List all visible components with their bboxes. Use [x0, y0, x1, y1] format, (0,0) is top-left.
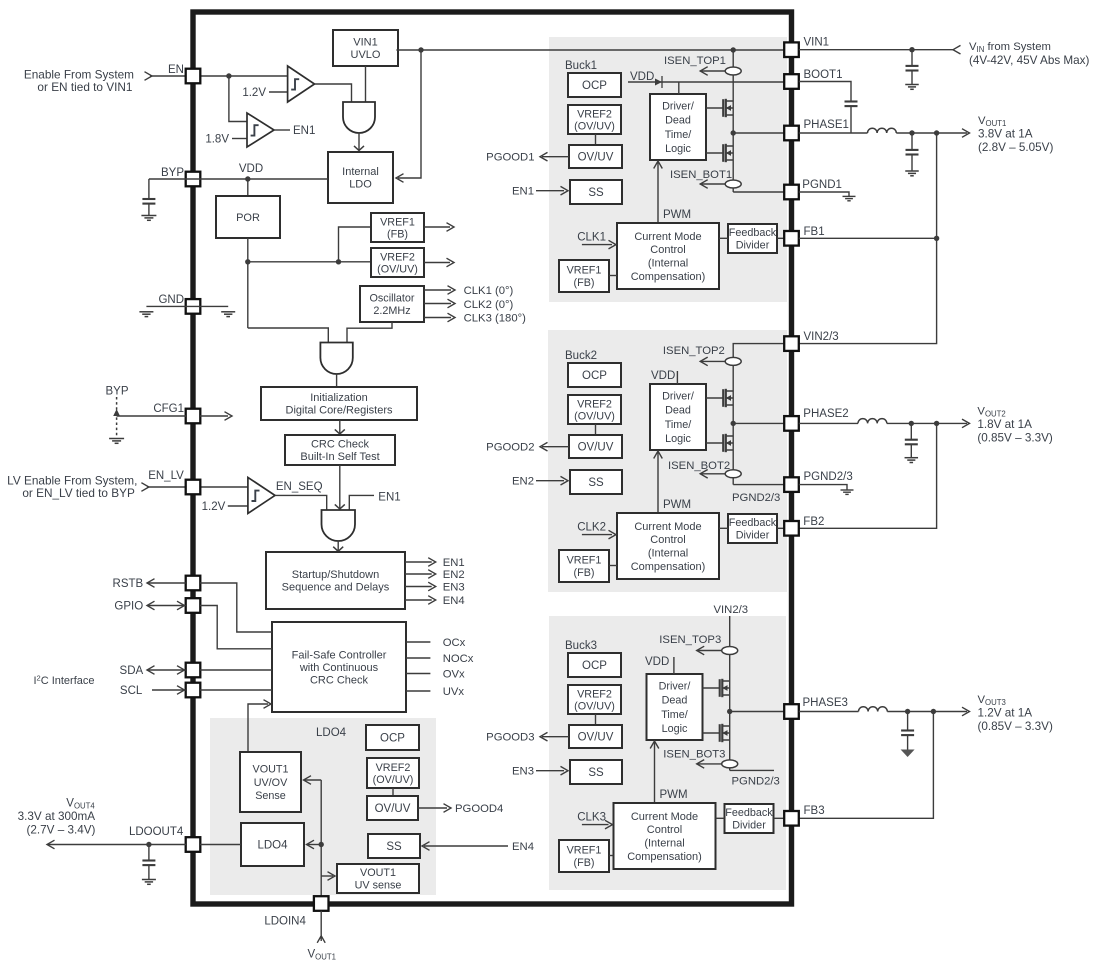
comparator EN 1.2V — [288, 66, 315, 102]
node C1 junction — [909, 130, 914, 135]
wire VOUT1 sense to fail-safe — [248, 704, 268, 752]
svg-text:1.8V: 1.8V — [205, 134, 229, 146]
svg-text:BOOT1: BOOT1 — [804, 69, 843, 81]
arrow EN2 into SS — [536, 480, 564, 482]
wire VREF2-OVUV (Buck2) — [595, 424, 597, 435]
wire VDD tick (Buck2) — [676, 371, 678, 384]
pin SCL — [186, 683, 201, 698]
svg-text:NOCx: NOCx — [443, 653, 474, 665]
svg-text:CFG1: CFG1 — [153, 403, 184, 415]
node LDOOUT4 junction — [146, 842, 151, 847]
svg-text:LDO4: LDO4 — [257, 840, 288, 852]
svg-text:(2.8V – 5.05V): (2.8V – 5.05V) — [978, 141, 1053, 154]
svg-text:EN4: EN4 — [512, 841, 534, 853]
svg-text:ISEN_TOP2: ISEN_TOP2 — [663, 345, 725, 357]
svg-text:BYP: BYP — [106, 386, 129, 398]
wire VREF2-OVUV (Buck1) — [595, 134, 597, 145]
capacitor C_LDO — [148, 845, 150, 861]
wire CFG1 to BYP ground — [117, 415, 186, 417]
svg-text:VREF1: VREF1 — [567, 554, 602, 566]
block POR — [216, 196, 280, 238]
svg-text:EN2: EN2 — [443, 569, 465, 581]
pin EN — [186, 69, 201, 84]
svg-text:1.8V at 1A: 1.8V at 1A — [977, 418, 1032, 431]
svg-text:ISEN_BOT2: ISEN_BOT2 — [668, 460, 730, 472]
svg-text:Startup/Shutdown: Startup/Shutdown — [292, 569, 379, 581]
wire PHASE1 external — [799, 132, 868, 134]
block VREF2 (Buck2) — [568, 395, 621, 424]
arrow VOUT1 into LDOIN4 — [317, 936, 325, 943]
AND gate U1 — [343, 102, 375, 133]
svg-text:2.2MHz: 2.2MHz — [373, 305, 410, 317]
block Feedback Divider (Buck3) — [725, 804, 774, 833]
svg-text:PGND2/3: PGND2/3 — [804, 471, 853, 483]
wire PGND2/3 stub (Buck3) — [730, 769, 774, 771]
wire LDOOUT4 to LDO4 — [200, 844, 241, 846]
pin PGND23 — [784, 477, 799, 492]
wire EN to comparator — [150, 75, 288, 77]
svg-text:Current Mode: Current Mode — [634, 231, 701, 243]
svg-text:VDD: VDD — [645, 656, 669, 668]
wire AND2 to Initialization — [336, 374, 338, 387]
svg-text:CLK2: CLK2 — [577, 522, 606, 534]
svg-text:PHASE2: PHASE2 — [803, 408, 848, 420]
svg-text:Oscillator: Oscillator — [370, 292, 415, 304]
arrow GPIO bidir — [147, 605, 186, 607]
svg-text:VREF1: VREF1 — [567, 844, 602, 856]
wire control to feedback (Buck1) — [719, 237, 728, 239]
capacitor C_BOOT — [845, 100, 858, 102]
block OCP (LDO4) — [366, 725, 419, 750]
arrow PGOOD3 — [542, 736, 569, 738]
arrow RSTB out — [147, 582, 186, 584]
svg-text:(OV/UV): (OV/UV) — [574, 410, 615, 422]
svg-text:OV/UV: OV/UV — [578, 442, 614, 454]
svg-text:SCL: SCL — [120, 685, 143, 697]
svg-text:Initialization: Initialization — [310, 392, 367, 404]
svg-text:GPIO: GPIO — [114, 601, 143, 613]
svg-text:with Continuous: with Continuous — [299, 662, 379, 674]
ground below C_VIN — [905, 84, 919, 86]
svg-text:CLK1: CLK1 — [577, 232, 606, 244]
pin RSTB — [186, 576, 201, 591]
svg-text:Driver/: Driver/ — [662, 390, 694, 402]
block Current Mode Control (Buck3) — [614, 803, 716, 869]
svg-text:(Internal: (Internal — [644, 838, 684, 850]
svg-text:VIN2/3: VIN2/3 — [804, 331, 839, 343]
AND gate U2 — [320, 343, 352, 375]
block VREF1 (FB) — [371, 213, 424, 242]
arrow EN4 into SS — [424, 845, 508, 847]
capacitor C_OUT1 — [911, 133, 913, 149]
pin EN_LV — [186, 480, 201, 495]
wire PHASE1 to pin — [733, 132, 784, 134]
wire GND left — [146, 305, 193, 307]
svg-text:Control: Control — [647, 824, 682, 836]
wire NOCx — [406, 657, 430, 659]
node VOUT3 junction — [931, 709, 936, 714]
svg-text:(OV/UV): (OV/UV) — [574, 120, 615, 132]
wire L1 to output — [896, 132, 967, 134]
svg-text:SS: SS — [588, 187, 604, 199]
wire rail to AND2 — [248, 328, 328, 343]
svg-text:Control: Control — [650, 534, 685, 546]
svg-text:Feedback: Feedback — [729, 517, 777, 529]
ground triangle below C_OUT3 — [901, 750, 915, 758]
arrow EN3 from startup — [405, 586, 432, 588]
pin LDOOUT4 — [186, 837, 201, 852]
current sense ISEN_TOP1 — [700, 70, 726, 72]
current sense ISEN_BOT2 — [700, 473, 726, 475]
wire SCL to fail-safe — [200, 689, 272, 691]
svg-text:Time/: Time/ — [665, 129, 692, 141]
svg-text:FB2: FB2 — [803, 516, 824, 528]
svg-text:FB1: FB1 — [804, 226, 825, 238]
wire PHASE3 to pin — [730, 711, 784, 713]
pin PHASE2 — [784, 416, 799, 431]
svg-text:EN2: EN2 — [512, 476, 534, 488]
wire control to feedback (Buck3) — [716, 817, 725, 819]
wire switch node (Buck3) — [729, 705, 731, 770]
block VREF2 (OV/UV) — [371, 248, 424, 277]
arrow SCL in — [152, 689, 186, 691]
svg-text:(FB): (FB) — [574, 857, 595, 869]
svg-text:Buck1: Buck1 — [565, 60, 597, 72]
svg-text:CLK3 (180°): CLK3 (180°) — [464, 313, 527, 325]
current sense ISEN_TOP3 — [697, 650, 723, 652]
svg-text:(0.85V – 3.3V): (0.85V – 3.3V) — [977, 432, 1052, 445]
node VREF1 branch junction — [336, 259, 341, 264]
svg-text:Compensation): Compensation) — [631, 561, 706, 573]
transistor top FET (Buck3) — [703, 687, 720, 689]
svg-text:(OV/UV): (OV/UV) — [373, 774, 414, 786]
svg-text:VIN1: VIN1 — [353, 37, 377, 49]
arrow CLK1 out — [424, 289, 451, 291]
svg-text:OCP: OCP — [582, 370, 607, 382]
svg-text:OV/UV: OV/UV — [578, 152, 614, 164]
svg-text:Dead: Dead — [665, 405, 691, 417]
svg-text:EN_SEQ: EN_SEQ — [276, 481, 323, 493]
block OV/UV (Buck1) — [569, 145, 622, 168]
wire LDOIN4 rail — [320, 780, 322, 897]
block VREF1 (Buck2) — [559, 550, 609, 582]
capacitor C_BYP — [148, 179, 150, 199]
wire comparator out to AND1 — [315, 84, 352, 102]
svg-text:CLK3: CLK3 — [577, 812, 606, 824]
svg-text:SS: SS — [386, 841, 402, 853]
arrow CLK2 out — [424, 303, 451, 305]
transistor top FET (Buck1) — [706, 107, 723, 109]
wire comparator to EN1 label — [274, 129, 290, 131]
wire GND right — [193, 305, 228, 307]
ground below C_OUT2 — [905, 457, 919, 459]
svg-text:VDD: VDD — [651, 370, 675, 382]
svg-text:(Internal: (Internal — [648, 258, 688, 270]
svg-text:PGND1: PGND1 — [802, 179, 842, 191]
Buck1 shaded region — [549, 37, 787, 302]
svg-text:(0.85V – 3.3V): (0.85V – 3.3V) — [978, 720, 1053, 733]
block Startup/Shutdown Sequence and Delays — [266, 552, 405, 609]
svg-text:UVx: UVx — [443, 686, 465, 698]
current sense ISEN_TOP2 — [700, 360, 726, 362]
svg-text:Divider: Divider — [736, 240, 770, 252]
wire LDOIN4 from VOUT1 — [320, 911, 322, 941]
wire VOUT1 to VIN2/3 — [799, 133, 937, 344]
block Current Mode Control (Buck2) — [617, 513, 719, 579]
wire VREF rail to VREF2 — [248, 261, 371, 263]
svg-text:CRC Check: CRC Check — [311, 439, 370, 451]
block OV/UV (Buck2) — [569, 435, 622, 458]
svg-text:Time/: Time/ — [665, 419, 692, 431]
wire VREF2-OVUV (Buck3) — [595, 714, 597, 725]
block Feedback Divider (Buck1) — [728, 224, 777, 253]
pin LDOIN4 — [314, 896, 329, 911]
block OV/UV (LDO4) — [367, 796, 418, 820]
svg-text:EN1: EN1 — [293, 125, 315, 137]
arrow into fail-safe bottom — [264, 700, 272, 709]
svg-text:Logic: Logic — [665, 433, 691, 445]
arrow LV enable — [141, 483, 149, 492]
wire FB1 external — [799, 237, 937, 239]
node VOUT1 junction — [934, 130, 939, 135]
capacitor C_VIN — [911, 50, 913, 66]
block SS (LDO4) — [368, 834, 420, 858]
svg-text:FB3: FB3 — [804, 805, 825, 817]
block OCP (Buck2) — [568, 363, 621, 387]
node VDD junction — [245, 176, 250, 181]
wire PGND2/3 (Buck2) — [733, 484, 784, 486]
svg-text:EN: EN — [168, 64, 184, 76]
wire PGND1 (Buck1) — [733, 191, 784, 193]
arrow PGOOD1 — [542, 156, 569, 158]
wire switch node (Buck2) — [732, 416, 734, 485]
wire GPIO to fail-safe — [200, 606, 272, 649]
node FB1 junction — [934, 236, 939, 241]
wire UVLO down to AND1 — [365, 66, 367, 102]
capacitor C_OUT2 — [910, 423, 912, 439]
svg-text:Time/: Time/ — [661, 709, 688, 721]
svg-text:EN3: EN3 — [512, 766, 534, 778]
arrow VIN from system — [953, 45, 961, 54]
pin PGND1 — [784, 185, 799, 200]
arrow VREF1 output — [424, 226, 450, 228]
inductor L2 — [858, 419, 887, 424]
wire 1.2V to comparator — [269, 91, 288, 93]
svg-text:OCP: OCP — [380, 733, 405, 745]
pin CFG1 — [186, 409, 201, 424]
svg-text:(FB): (FB) — [574, 277, 595, 289]
arrow EN4 from startup — [405, 599, 432, 601]
pin GPIO — [186, 598, 201, 613]
svg-text:PGND2/3: PGND2/3 — [732, 775, 780, 787]
block Initialization Digital Core/Registers — [261, 387, 417, 420]
wire EN_SEQ to AND3 — [275, 495, 327, 510]
block OCP (Buck3) — [568, 653, 621, 677]
wire VDD tick (Buck3) — [673, 657, 675, 674]
block Driver/Dead Time/Logic (Buck2) — [650, 384, 706, 450]
wire EN_LV to comparator — [147, 486, 248, 488]
svg-text:VREF2: VREF2 — [577, 398, 612, 410]
block Oscillator 2.2MHz — [360, 286, 424, 322]
arrow CLK3 out — [424, 317, 451, 319]
svg-text:Dead: Dead — [665, 115, 691, 127]
Buck3 shaded region — [549, 616, 786, 890]
svg-text:(OV/UV): (OV/UV) — [377, 263, 418, 275]
wire VIN1 rail (Buck1) — [732, 50, 734, 126]
wire PHASE3 external — [799, 711, 859, 713]
svg-text:or EN_LV tied to BYP: or EN_LV tied to BYP — [22, 486, 135, 500]
svg-text:PGND2/3: PGND2/3 — [732, 492, 780, 504]
arrow VREF2 output — [424, 262, 450, 264]
arrow VDD (Buck1) — [655, 79, 662, 86]
ground below C_BYP — [141, 215, 156, 217]
svg-text:(Internal: (Internal — [648, 548, 688, 560]
wire L3 to output — [887, 711, 967, 713]
svg-text:VREF1: VREF1 — [380, 216, 415, 228]
wire PWM (Buck2) — [657, 452, 659, 513]
wire VOUT2 to FB2 — [799, 423, 937, 528]
ground left of GND — [139, 311, 153, 313]
current sense ISEN_BOT3 — [697, 763, 723, 765]
svg-text:Buck2: Buck2 — [565, 350, 597, 362]
wire UVLO output to VIN1 line — [396, 49, 784, 51]
svg-text:Sense: Sense — [255, 790, 286, 802]
svg-text:Buck3: Buck3 — [565, 640, 597, 652]
arrow Initialization to CRC — [339, 420, 341, 434]
arrow VOUT2 — [962, 419, 970, 428]
block VREF1 (Buck3) — [559, 840, 609, 872]
block Feedback Divider (Buck2) — [728, 514, 777, 543]
wire PWM (Buck1) — [657, 162, 659, 223]
svg-text:3.8V at 1A: 3.8V at 1A — [978, 128, 1033, 141]
node VOUT2 junction — [934, 421, 939, 426]
svg-text:PWM: PWM — [663, 499, 691, 511]
node EN junction — [226, 73, 231, 78]
arrow VOUT1 — [962, 129, 970, 138]
svg-text:OCP: OCP — [582, 80, 607, 92]
wire RSTB to fail-safe — [200, 583, 272, 632]
arrow up on BYP pulldown — [113, 409, 120, 416]
svg-text:1.2V: 1.2V — [202, 501, 226, 513]
svg-text:SDA: SDA — [120, 665, 144, 677]
svg-text:Internal: Internal — [342, 166, 379, 178]
arrow AND3 to Startup — [337, 541, 339, 551]
svg-text:(FB): (FB) — [574, 567, 595, 579]
arrow EN1 into SS — [536, 190, 564, 192]
arrow rail to UV/OV sense — [305, 779, 321, 781]
svg-text:(OV/UV): (OV/UV) — [574, 700, 615, 712]
arrow CFG1 out — [200, 415, 228, 417]
arrow VOUT4 out — [47, 840, 55, 849]
svg-text:Current Mode: Current Mode — [634, 521, 701, 533]
svg-text:EN1: EN1 — [443, 557, 465, 569]
svg-text:PGOOD3: PGOOD3 — [486, 732, 534, 744]
block OCP (Buck1) — [568, 73, 621, 97]
svg-text:Fail-Safe Controller: Fail-Safe Controller — [292, 649, 387, 661]
wire AND1 to Internal LDO — [358, 133, 360, 150]
svg-text:UV/OV: UV/OV — [254, 777, 288, 789]
svg-text:ISEN_BOT1: ISEN_BOT1 — [670, 169, 732, 181]
block VOUT1 UV sense — [337, 864, 419, 893]
svg-text:Sequence and Delays: Sequence and Delays — [282, 582, 390, 594]
wire PWM (Buck3) — [654, 742, 656, 803]
svg-text:Feedback: Feedback — [725, 807, 773, 819]
arrow PGOOD2 — [542, 446, 569, 448]
transistor bottom FET (Buck1) — [706, 152, 723, 154]
comparator EN_SEQ — [248, 477, 275, 513]
wire VOUT3 to FB3 — [799, 712, 934, 819]
svg-text:EN1: EN1 — [512, 186, 534, 198]
block Driver/Dead Time/Logic (Buck3) — [647, 674, 703, 740]
svg-text:GND: GND — [158, 294, 184, 306]
svg-text:LDO4: LDO4 — [316, 727, 347, 739]
wire oscillator to AND2 — [347, 322, 392, 343]
ground PGND2/3 — [841, 489, 854, 491]
wire CRC to AND3 — [339, 465, 341, 509]
wire 1.8V to comparator — [232, 138, 247, 140]
arrow VOUT3 — [962, 707, 970, 716]
node PHASE3 junction — [727, 709, 732, 714]
ground below C_OUT1 — [905, 170, 919, 172]
wire VREF1 to control (Buck2) — [609, 565, 617, 567]
wire EN1 into AND3 — [349, 495, 374, 510]
node VIN1 rail junction — [731, 47, 736, 52]
svg-text:VOUT1: VOUT1 — [360, 867, 396, 879]
arrow PGOOD4 — [418, 807, 447, 809]
svg-text:LDOIN4: LDOIN4 — [264, 916, 306, 928]
block OV/UV (Buck3) — [569, 725, 622, 748]
dashed wire BYP pulldown — [116, 397, 118, 437]
block VREF2 (Buck1) — [568, 105, 621, 134]
svg-text:1.2V at 1A: 1.2V at 1A — [978, 707, 1033, 720]
wire PHASE2 to pin — [733, 422, 784, 424]
svg-text:VREF2: VREF2 — [376, 762, 411, 774]
wire LDOOUT4 out — [48, 844, 186, 846]
svg-text:PGOOD4: PGOOD4 — [455, 803, 503, 815]
svg-text:CRC Check: CRC Check — [310, 674, 369, 686]
wire VDD to POR — [247, 179, 249, 196]
wire PGND2/3 external — [799, 485, 847, 490]
pin FB1 — [784, 231, 799, 246]
svg-text:1.2V: 1.2V — [242, 87, 266, 99]
svg-text:Driver/: Driver/ — [659, 680, 691, 692]
node PHASE2 junction — [731, 421, 736, 426]
wire VREF1 to control (Buck3) — [609, 855, 614, 857]
svg-text:Divider: Divider — [732, 820, 766, 832]
svg-text:VREF1: VREF1 — [567, 264, 602, 276]
svg-text:Logic: Logic — [665, 143, 691, 155]
arrow CLK2 into control — [582, 534, 612, 536]
svg-text:OVx: OVx — [443, 669, 465, 681]
arrow rail to LDO4 — [308, 844, 321, 846]
node VIN cap junction — [909, 47, 914, 52]
svg-text:UVLO: UVLO — [351, 49, 381, 61]
node C3 junction — [905, 709, 910, 714]
pin FB3 — [784, 811, 799, 826]
block SS (Buck1) — [570, 180, 622, 204]
svg-text:EN_LV: EN_LV — [148, 470, 184, 482]
svg-text:SS: SS — [588, 477, 604, 489]
pin VIN1 — [784, 42, 799, 57]
LDO4 shaded region — [210, 718, 436, 895]
block CRC Check Built-In Self Test — [285, 435, 395, 465]
svg-text:3.3V at 300mA: 3.3V at 300mA — [18, 810, 96, 823]
node C2 junction — [909, 421, 914, 426]
svg-text:VIN2/3: VIN2/3 — [714, 604, 749, 616]
transistor bottom FET (Buck3) — [703, 732, 720, 734]
svg-text:Divider: Divider — [736, 530, 770, 542]
pin BOOT1 — [784, 74, 799, 89]
